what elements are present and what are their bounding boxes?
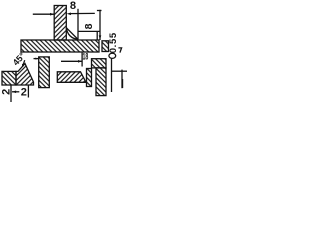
extension line x27.4 <box>27 85 29 98</box>
extension line x11 <box>10 85 12 102</box>
small tick right of 0.55 <box>118 48 121 53</box>
ellipse <box>109 53 116 58</box>
svg-text:2: 2 <box>21 86 27 98</box>
svg-text:8: 8 <box>83 23 95 29</box>
18 dimension line <box>61 60 82 62</box>
vertical bar C <box>39 57 50 88</box>
step vline x97.2 <box>96 31 98 40</box>
18 extension line <box>81 53 83 67</box>
tick top <box>97 10 102 12</box>
svg-text:8: 8 <box>70 0 76 12</box>
weld chord <box>67 28 78 39</box>
bar2 <box>96 68 106 96</box>
dimension line left of rib <box>33 13 55 15</box>
svg-text:18: 18 <box>83 52 89 62</box>
arrowhead right at rib left edge <box>50 13 54 16</box>
weld fillet arc <box>67 28 79 40</box>
dimension vline right end of plate <box>99 10 101 40</box>
step line y31.4 <box>78 30 100 32</box>
bottom drawing: beveled piece B with peak <box>16 64 34 85</box>
extension line x78 <box>77 9 79 40</box>
svg-text:2: 2 <box>1 89 13 95</box>
down arrow at block top <box>99 35 102 39</box>
dim line with left arrow (2) <box>12 91 19 93</box>
rib (vertical plate, top drawing) <box>54 6 66 41</box>
45deg leader line <box>23 60 25 66</box>
top piece <box>92 59 107 68</box>
svg-text:0.55: 0.55 <box>108 32 119 53</box>
bottom drawing: left plate A <box>2 71 16 85</box>
end block (top right) <box>102 41 109 52</box>
horizontal line to right edge <box>112 70 128 72</box>
base plate (top drawing) <box>21 40 99 52</box>
right edge vertical line <box>121 70 123 89</box>
arrowhead pointing left at rib right edge <box>67 13 71 16</box>
dimension line right <box>69 12 95 14</box>
plate D with bevel (bottom right) <box>57 72 86 83</box>
vertical line below ellipse <box>111 59 113 92</box>
bar1 <box>87 69 92 87</box>
short dash left of bar C <box>34 58 39 60</box>
45deg leader arrowhead <box>22 64 25 68</box>
